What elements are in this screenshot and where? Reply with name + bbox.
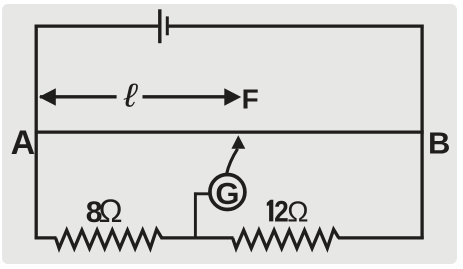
label ell <box>123 76 139 113</box>
wire: right vertical side <box>420 25 423 240</box>
galvanometer branch wire: vertical from bottom wire <box>194 192 197 239</box>
galvanometer G circle <box>210 175 245 210</box>
potentiometer wire A-B <box>35 131 424 134</box>
galvanometer branch wire: horizontal to circle <box>194 192 210 195</box>
resistor 8 ohm zigzag <box>56 229 162 248</box>
svg-text:Ω: Ω <box>99 193 123 229</box>
wire: left vertical side <box>35 25 38 240</box>
label 1 <box>267 200 274 222</box>
length arrow: right head <box>224 88 241 105</box>
resistor 12 ohm zigzag <box>233 229 339 248</box>
svg-text:A: A <box>11 124 36 162</box>
svg-text:F: F <box>242 84 259 115</box>
svg-text:B: B <box>428 126 450 161</box>
jockey contact arrow head <box>231 135 245 149</box>
wire: top-left horizontal segment (battery left lead) <box>35 25 159 28</box>
svg-text:G: G <box>215 176 239 211</box>
battery cell: short plate <box>166 16 169 35</box>
length arrow: left head <box>39 88 56 105</box>
length arrow: right shaft <box>143 95 233 98</box>
wire: bottom-left segment <box>35 236 57 239</box>
svg-text:Ω: Ω <box>287 196 308 228</box>
wire: bottom-middle segment <box>161 236 234 239</box>
wire: bottom-right segment <box>338 236 424 239</box>
battery cell: long plate <box>158 9 161 43</box>
wire: top-right horizontal segment (battery right lead) <box>169 25 424 28</box>
jockey contact arrow shaft (curved) <box>227 149 238 174</box>
length arrow: left shaft <box>40 95 117 98</box>
